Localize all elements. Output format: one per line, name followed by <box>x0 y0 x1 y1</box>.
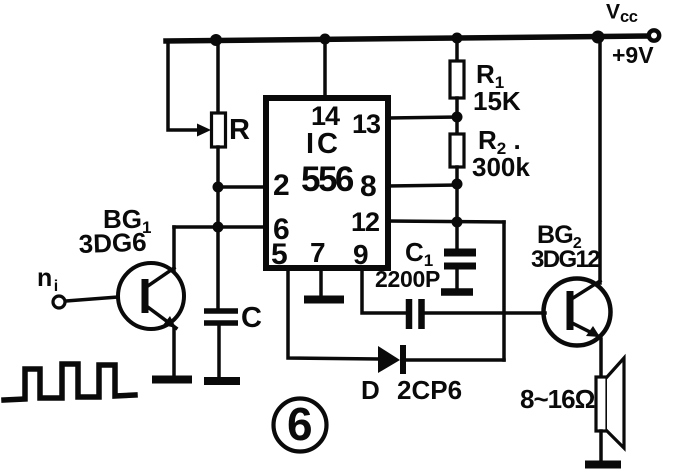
svg-text:2: 2 <box>273 169 290 202</box>
+9V label <box>612 42 654 68</box>
svg-text:15K: 15K <box>473 86 521 116</box>
speaker value label <box>520 384 595 414</box>
node pin12 junction <box>452 217 463 228</box>
svg-text:D2CP6: D2CP6 <box>361 375 462 405</box>
capacitor C <box>204 311 238 377</box>
svg-text:R: R <box>229 114 250 146</box>
15K label <box>473 86 521 116</box>
556 label <box>301 160 354 199</box>
node pin2 junction <box>213 182 224 193</box>
wire pin 13 <box>388 117 457 118</box>
IC label <box>306 128 341 160</box>
speaker <box>596 358 624 448</box>
node pin6 junction <box>213 222 224 233</box>
pin 7 label <box>310 237 326 268</box>
pin 12 label <box>351 207 379 237</box>
node ni label <box>37 264 58 295</box>
svg-text:C: C <box>241 302 262 334</box>
svg-text:556: 556 <box>301 160 354 199</box>
coupling capacitor <box>409 299 422 329</box>
pin 9 label <box>353 239 369 270</box>
svg-text:8~16Ω: 8~16Ω <box>520 384 595 414</box>
svg-text:2200P: 2200P <box>375 266 440 292</box>
wire pin 9 down <box>362 268 405 313</box>
BG1 label <box>103 204 151 237</box>
wire pin 7 down <box>319 268 323 296</box>
wire pin 2 <box>218 185 266 189</box>
wire BG2 collector to rail <box>598 37 602 283</box>
ground speaker <box>585 461 621 469</box>
pin 8 label <box>360 170 377 203</box>
diode D 2CP6 <box>378 345 504 374</box>
wire input to base <box>66 297 118 301</box>
wire left branch to R wiper <box>168 41 197 130</box>
wire R bottom down left chain <box>216 147 220 311</box>
3DG12 label <box>531 246 600 273</box>
svg-text:300k: 300k <box>472 152 530 182</box>
resistor R1 <box>450 38 464 117</box>
input pulse waveform <box>4 364 135 400</box>
pin 6 label <box>273 213 290 246</box>
svg-text:14: 14 <box>311 101 340 131</box>
BG2 label <box>537 221 582 252</box>
svg-text:9: 9 <box>353 239 369 270</box>
wire Vcc top rail <box>166 36 648 41</box>
wire pin 5 down <box>288 268 378 359</box>
wire pin 14 to rail <box>323 39 327 98</box>
node R1/R2 junction <box>452 112 463 123</box>
C label <box>241 302 262 334</box>
svg-text:+9V: +9V <box>612 42 654 68</box>
wire coupling cap to BG2 base <box>424 311 545 315</box>
wire speaker to ground <box>599 431 603 461</box>
svg-text:5: 5 <box>271 238 288 271</box>
wire pin12 net down <box>502 222 506 360</box>
wire BG1 collector <box>172 227 176 270</box>
input terminal ni circle <box>53 296 65 308</box>
svg-text:6: 6 <box>287 398 313 450</box>
wire rail to R top <box>216 40 220 113</box>
svg-text:13: 13 <box>352 109 381 139</box>
wire pin 8 <box>388 185 457 186</box>
ground C1 <box>441 288 473 296</box>
svg-text:3DG12: 3DG12 <box>531 246 600 273</box>
svg-text:3DG6: 3DG6 <box>78 227 147 259</box>
ground C <box>204 377 240 385</box>
resistor R <box>212 113 226 147</box>
pin 14 label <box>311 101 340 131</box>
svg-text:7: 7 <box>310 237 326 268</box>
svg-text:12: 12 <box>351 207 379 237</box>
R2 label <box>478 125 521 158</box>
Vcc label <box>606 1 638 27</box>
pin 5 label <box>271 238 288 271</box>
300k label <box>472 152 530 182</box>
capacitor C1 <box>444 222 476 289</box>
2200P label <box>375 266 440 292</box>
ground pin 7 <box>304 296 344 304</box>
wire pin 6 <box>174 225 266 229</box>
node rail junction pin14 <box>320 34 331 45</box>
svg-text:IC: IC <box>306 128 341 160</box>
R value label <box>229 114 250 146</box>
C1 label <box>405 237 433 270</box>
pin 2 label <box>273 169 290 202</box>
pin 13 label <box>352 109 381 139</box>
transistor Q1 BG1 <box>118 263 184 329</box>
ground BG1 emitter <box>152 376 192 384</box>
node rail junction at R <box>210 34 222 46</box>
node rail junction R1 <box>452 33 463 44</box>
resistor R2 <box>450 117 464 184</box>
op-amp U1 IC 556 box <box>266 98 388 268</box>
3DG6 label <box>78 227 147 259</box>
transistor Q2 BG2 <box>544 279 611 346</box>
D 2CP6 label <box>361 375 462 405</box>
wire R2 to pin12 net <box>455 184 459 222</box>
R1 label <box>476 59 504 92</box>
wiper arrowhead <box>197 124 211 137</box>
wire BG1 emitter <box>172 328 176 376</box>
node rail junction BG2 collector <box>592 31 605 44</box>
figure number 6 <box>274 399 327 452</box>
node R2 bottom junction <box>452 179 463 190</box>
wire BG2 emitter <box>599 339 603 377</box>
wire pin 12 <box>388 221 504 222</box>
svg-text:8: 8 <box>360 170 377 203</box>
Vcc terminal circle <box>649 30 659 40</box>
